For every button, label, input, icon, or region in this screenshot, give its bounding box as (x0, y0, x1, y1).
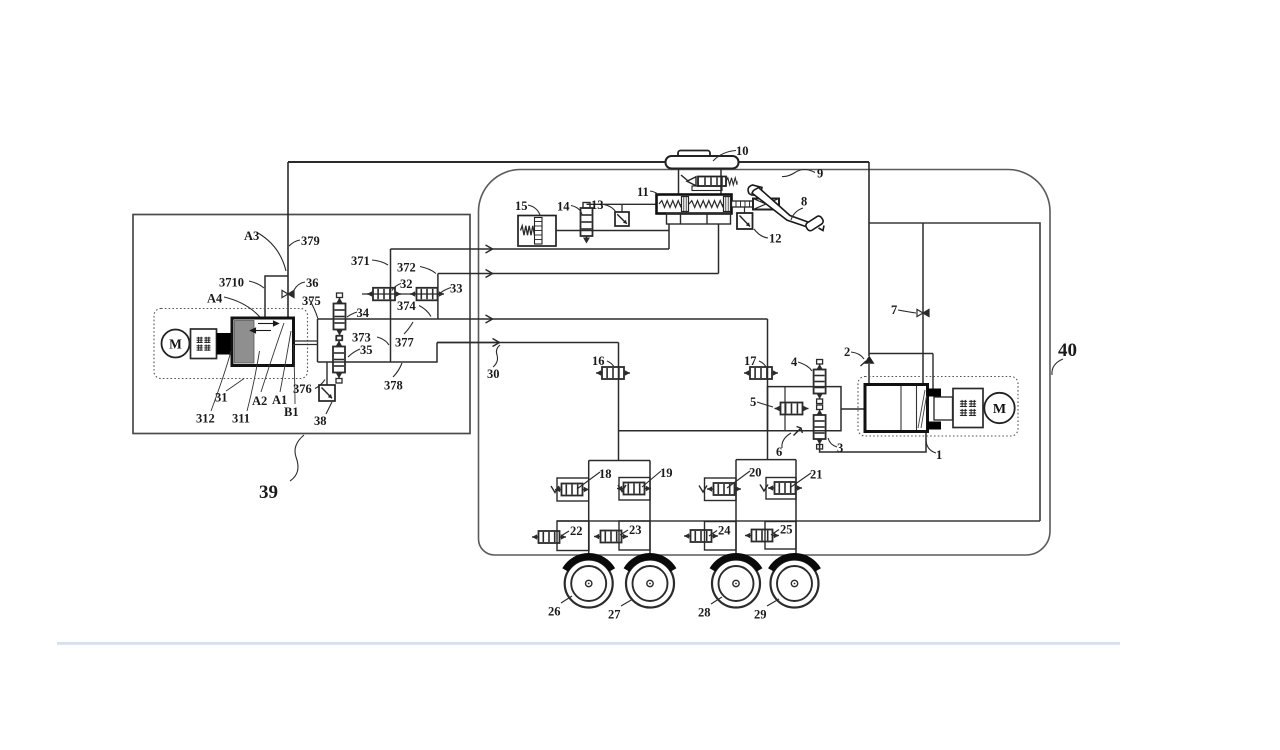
svg-text:26: 26 (548, 605, 561, 619)
leader 3 (828, 438, 837, 447)
wire 372 vertical (437, 274, 439, 320)
pilot valve 9 (681, 175, 737, 191)
dashed housing 31 (154, 309, 308, 379)
check valve 2 (864, 356, 875, 364)
inlet valve 20 (707, 483, 741, 495)
wire junction horizontal (869, 353, 933, 355)
leader 39 (290, 435, 304, 481)
svg-text:35: 35 (360, 343, 373, 357)
dashed housing 1 (858, 377, 1018, 437)
check valve 36 (282, 290, 294, 297)
svg-text:39: 39 (259, 482, 278, 503)
wire 14-13-MC upper (587, 203, 657, 205)
leader 21 (791, 473, 811, 487)
connector arrow line1 (486, 245, 493, 253)
MC pushrod (732, 201, 754, 207)
svg-text:2: 2 (844, 345, 850, 359)
leader 26 (561, 596, 572, 603)
solenoid valve 16 (596, 367, 630, 379)
svg-text:A3: A3 (244, 229, 259, 243)
svg-text:16: 16 (592, 354, 605, 368)
check 21 (760, 485, 768, 492)
leader 14 (571, 206, 582, 215)
svg-text:B1: B1 (284, 405, 299, 419)
svg-text:33: 33 (450, 282, 463, 296)
svg-text:375: 375 (302, 294, 321, 308)
svg-text:3710: 3710 (219, 276, 244, 290)
svg-text:30: 30 (487, 367, 500, 381)
leader 34 (347, 312, 357, 317)
wheel 26 (565, 556, 613, 607)
wire 32-33 link (362, 293, 440, 295)
wire block inner vert (784, 387, 786, 431)
inlet valve 21 (768, 482, 802, 494)
MC outlet manifold (667, 214, 731, 225)
svg-text:19: 19 (660, 466, 673, 480)
wire reservoir leg left (678, 169, 680, 195)
leader 25 (771, 530, 779, 536)
svg-text:10: 10 (736, 144, 749, 158)
brake pedal 8 (748, 185, 824, 232)
svg-text:31: 31 (215, 391, 228, 405)
svg-text:376: 376 (293, 382, 312, 396)
check valve 2 tail (861, 361, 867, 366)
wire 374 (line3 left part) (318, 318, 491, 320)
leader 36 (294, 282, 305, 290)
leader 33 (441, 288, 451, 293)
accumulator 15 (518, 216, 556, 247)
solenoid valve 5 (775, 403, 809, 415)
svg-text:374: 374 (397, 299, 417, 313)
svg-text:9: 9 (817, 167, 823, 181)
svg-text:3: 3 (837, 441, 843, 455)
wire line3 vertical to valve17 (767, 319, 769, 460)
gearbox right (reduction gear box) (953, 389, 983, 428)
box valve 24 (705, 522, 737, 551)
coupling block (left, solid) (217, 333, 237, 355)
wire line2 (372 to MC port2) (438, 273, 719, 275)
svg-text:14: 14 (557, 200, 570, 214)
svg-text:4: 4 (791, 355, 798, 369)
box valve 22 (557, 521, 589, 551)
svg-text:M: M (169, 337, 182, 352)
leader 32 (392, 284, 401, 291)
wire 377 (line4 left part) (437, 342, 497, 344)
leader 7 (898, 310, 916, 313)
leader 28 (711, 597, 722, 604)
leader 371 (372, 260, 388, 265)
svg-text:38: 38 (314, 414, 327, 428)
wire rod feed drop (932, 354, 934, 390)
svg-text:379: 379 (301, 234, 320, 248)
solenoid valve 34 (334, 293, 346, 340)
plunger cylinder 311/312 (232, 318, 294, 366)
leader lines A2 A1 B1 311 312 inside cylinder (211, 323, 295, 411)
block 20/21 left drop (735, 460, 737, 558)
svg-text:21: 21 (810, 468, 823, 482)
leader 38 (326, 402, 332, 414)
check 19 (618, 485, 626, 492)
wire branch y430 (619, 430, 768, 432)
svg-text:7: 7 (891, 303, 897, 317)
svg-text:6: 6 (776, 445, 782, 459)
inlet valve 19 (617, 483, 651, 495)
leader 35 (348, 349, 360, 357)
connector arrow line4 (493, 339, 500, 347)
box valve 19 (619, 478, 650, 501)
check valve 6 (794, 427, 803, 436)
leader 373 (377, 337, 389, 345)
svg-text:1: 1 (936, 448, 942, 462)
leader 24 (709, 531, 717, 537)
piston arrows (251, 321, 279, 333)
leader 29 (767, 599, 779, 606)
leader 374 (419, 306, 431, 317)
leader 377 (404, 322, 413, 334)
svg-text:311: 311 (232, 412, 250, 426)
svg-text:17: 17 (744, 354, 757, 368)
pressure sensor 38 (319, 385, 335, 401)
inner rect top edge (node to 40 right) (869, 223, 1040, 521)
duct 3710 (265, 276, 288, 317)
svg-text:20: 20 (749, 466, 762, 480)
wheel 29 (771, 556, 819, 607)
leader 1 (926, 439, 936, 453)
svg-text:5: 5 (750, 395, 756, 409)
block 18/19 header (589, 460, 650, 462)
leader 40 (1052, 359, 1063, 375)
block 18/19 right drop (649, 461, 651, 559)
box valve 20 (705, 478, 737, 501)
svg-text:27: 27 (608, 608, 621, 622)
rod seals (right, solid) (928, 389, 942, 430)
svg-text:8: 8 (801, 195, 807, 209)
box valve 25 (765, 522, 796, 550)
leader 19 (642, 471, 661, 487)
leader 4 (798, 362, 812, 371)
leader 379 (289, 240, 300, 246)
block 20/21 right drop (795, 460, 797, 558)
svg-text:34: 34 (357, 306, 370, 320)
relief valve 14 (581, 203, 593, 244)
svg-text:11: 11 (637, 185, 649, 199)
leader 6 (782, 433, 791, 448)
master cylinder 11 (657, 195, 732, 214)
wheel 28 (712, 556, 760, 607)
leader 23 (620, 530, 628, 535)
svg-text:32: 32 (400, 277, 413, 291)
block 20/21 header (736, 459, 796, 461)
bleed line (y=521) (557, 520, 1040, 522)
svg-text:29: 29 (754, 608, 767, 622)
actuator cylinder (right) (865, 385, 928, 432)
MC springs and pistons (659, 197, 731, 212)
wire cylinder port b (294, 344, 318, 346)
reservoir 10 (666, 156, 739, 169)
enclosure box 39 (133, 215, 470, 434)
svg-text:M: M (993, 402, 1006, 417)
leader 2 (851, 352, 864, 359)
wire valve3 bottom run (820, 432, 926, 452)
wire 371 vertical (390, 249, 392, 362)
leader 30 (493, 345, 500, 367)
svg-text:371: 371 (351, 254, 370, 268)
wire line4 vertical to valve16 (618, 343, 620, 461)
leader A4 (224, 297, 260, 317)
wire cylinder port a (294, 340, 318, 342)
wire MC port1 drop (668, 224, 670, 249)
wire to sensor 38 (326, 362, 328, 385)
leader 27 (621, 599, 633, 606)
box valve 18 (557, 478, 589, 501)
wire 13 stub (621, 204, 623, 212)
manifold block 375/378 (318, 319, 438, 362)
wire sensor 12 stub (744, 207, 746, 213)
leader 378 (393, 363, 402, 377)
wire 379 vertical (287, 162, 289, 317)
wire reservoir top header (288, 161, 869, 163)
svg-text:22: 22 (570, 524, 583, 538)
wire reservoir drop right (868, 162, 870, 356)
leader 18 (577, 472, 600, 489)
svg-text:15: 15 (515, 199, 528, 213)
reservoir cap (678, 151, 710, 157)
solenoid valve 32 (367, 288, 401, 301)
svg-text:25: 25 (780, 523, 793, 537)
wire block to cylinder (841, 408, 865, 410)
svg-text:28: 28 (698, 606, 711, 620)
outlet valve 25 (745, 530, 779, 542)
solenoid valve 33 (410, 288, 444, 301)
leader 16 (607, 361, 614, 367)
leader 376 (315, 380, 325, 389)
svg-text:18: 18 (599, 467, 612, 481)
svg-text:23: 23 (629, 523, 642, 537)
leader 11 (650, 191, 659, 196)
motor M (right) (984, 393, 1014, 423)
leader 372 (420, 267, 436, 274)
outlet valve 22 (532, 531, 566, 543)
leader 9 (782, 170, 815, 177)
wire check2 to cylinder (868, 364, 870, 385)
leader 10 (713, 151, 736, 162)
svg-text:378: 378 (384, 379, 403, 393)
enclosure rounded box 40 (479, 170, 1051, 556)
divider line (blue) (57, 642, 1120, 645)
solenoid valve 17 (744, 367, 778, 379)
outlet valve 24 (684, 530, 718, 542)
solenoid valve 3 (814, 405, 826, 449)
box valve 23 (619, 521, 650, 550)
svg-text:377: 377 (395, 336, 414, 350)
leader 22 (561, 531, 569, 536)
leader 375 (309, 299, 318, 319)
motor M (left) (162, 330, 190, 358)
leader 5 (757, 402, 773, 407)
svg-text:312: 312 (196, 412, 215, 426)
svg-text:A2: A2 (252, 394, 267, 408)
leader 3710 (249, 281, 264, 288)
wire reservoir leg right (720, 169, 722, 195)
leader 15 (528, 205, 540, 215)
box valve 21 (766, 478, 796, 500)
leader 12 (754, 229, 768, 238)
svg-text:12: 12 (769, 232, 782, 246)
wire accumulator line (556, 230, 669, 232)
svg-text:24: 24 (718, 524, 731, 538)
wire line3 right segment (490, 318, 768, 320)
check 18 (551, 486, 559, 493)
leader 17 (759, 361, 766, 367)
leader 20 (727, 471, 750, 488)
wheel 27 (626, 556, 674, 607)
solenoid valve 35 (333, 336, 345, 383)
outlet valve 23 (594, 531, 628, 543)
solenoid valve 4 (814, 360, 826, 404)
pedal sensor 12 (737, 213, 753, 229)
wire valve7 vertical (922, 223, 924, 385)
check 20 (699, 486, 707, 493)
gearbox left (reduction gear box) (191, 329, 217, 359)
inlet valve 18 (555, 484, 589, 496)
pedal clevis (753, 199, 779, 210)
wire MC port2 drop (718, 224, 720, 274)
block 18/19 left drop (588, 461, 590, 559)
leader A3 (258, 233, 286, 271)
svg-text:372: 372 (397, 261, 416, 275)
check valve 7 (917, 309, 929, 316)
piston rod (right) (934, 397, 953, 420)
svg-text:36: 36 (306, 276, 319, 290)
connector arrow line2 (486, 270, 493, 278)
apply block around valve 5 (768, 387, 842, 431)
svg-text:A4: A4 (207, 292, 223, 306)
svg-text:40: 40 (1058, 340, 1077, 361)
wire line4 mid segment (437, 342, 619, 344)
connector arrow line3 (486, 315, 493, 323)
leader 8 (791, 208, 803, 220)
leader 13 (604, 205, 616, 213)
wire line1 (371 to MC port1) (391, 248, 670, 250)
svg-text:13: 13 (591, 198, 604, 212)
pressure sensor 13 (615, 212, 629, 226)
